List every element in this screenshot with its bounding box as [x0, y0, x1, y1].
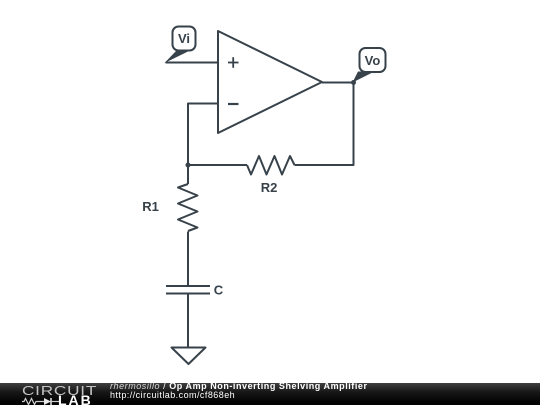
- svg-text:R1: R1: [142, 199, 159, 214]
- capacitor C: [166, 286, 210, 294]
- resistor R1: [178, 184, 198, 231]
- wire op-amp - input to node A: [188, 104, 218, 166]
- op-amp + pin mark: [228, 57, 239, 68]
- node flag Vo: [353, 48, 386, 83]
- logo LAB: [58, 395, 93, 405]
- junction node at output: [351, 80, 356, 85]
- footer title: [110, 382, 368, 391]
- node flag Vi: [165, 27, 196, 64]
- logo CIRCUIT: [22, 385, 97, 396]
- wire output to Vo node: [322, 82, 354, 84]
- wire R1 to capacitor C: [187, 232, 189, 286]
- logo squiggle: [22, 397, 59, 405]
- op-amp - pin mark: [228, 103, 239, 105]
- footer url: [110, 391, 235, 400]
- svg-text:C: C: [214, 283, 224, 298]
- wire capacitor to ground: [187, 294, 189, 348]
- footer bar: [0, 383, 540, 405]
- wire node A down to R1: [187, 165, 189, 184]
- op-amp U1: [218, 31, 322, 133]
- ground: [172, 348, 206, 365]
- svg-text:Vi: Vi: [178, 31, 190, 46]
- junction node A: [186, 163, 191, 168]
- wire Vo node down to R2: [295, 83, 354, 166]
- resistor R2: [247, 156, 295, 175]
- wire node A to R2 left: [188, 164, 247, 166]
- svg-text:R2: R2: [261, 180, 278, 195]
- wire Vi to op-amp + input: [166, 62, 219, 64]
- svg-text:Vo: Vo: [365, 53, 381, 68]
